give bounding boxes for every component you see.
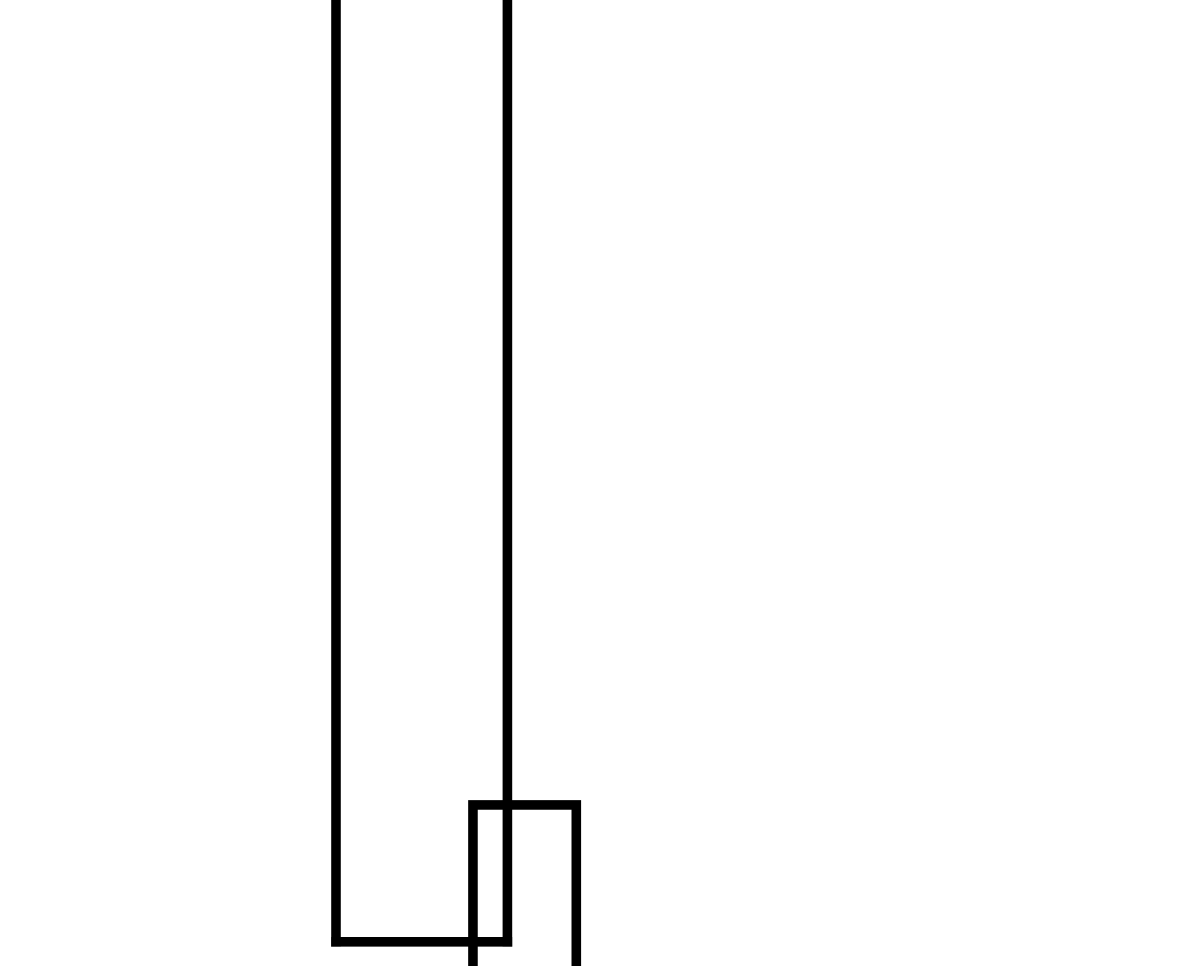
- wire: bottom horizontal segment: [331, 937, 512, 947]
- component box (clipped at bottom edge): [473, 805, 576, 966]
- wire: right vertical segment: [503, 0, 513, 947]
- wire: left vertical segment: [331, 0, 341, 947]
